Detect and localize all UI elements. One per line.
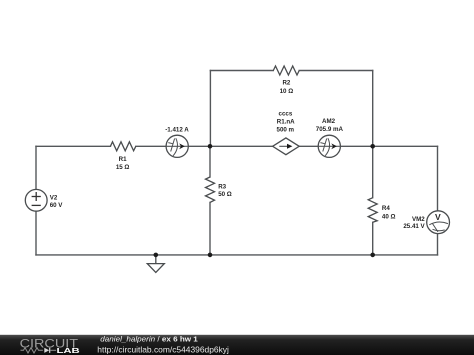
wire main horizontal right segment [136,145,438,147]
svg-text:R4: R4 [382,205,390,212]
resistor R3 [206,177,215,202]
CircuitLab logo resistor zigzag [21,348,43,353]
footer bar [0,335,474,355]
label cccs [277,110,296,133]
svg-text:50 Ω: 50 Ω [218,191,232,198]
svg-text:25.41 V: 25.41 V [403,223,425,230]
svg-text:40 Ω: 40 Ω [382,214,396,221]
wire R4 bottom lead [372,222,374,255]
label VM2 [403,216,425,230]
svg-text:cccs: cccs [279,110,293,117]
svg-text:V2: V2 [50,194,58,201]
svg-text:VM2: VM2 [412,216,425,223]
CircuitLab logo diode [44,348,56,353]
wire top horizontal right segment [299,70,373,72]
svg-text:15 Ω: 15 Ω [116,164,130,171]
svg-text:705.9 mA: 705.9 mA [316,126,344,133]
footer url [97,344,229,354]
wire bottom horizontal [36,254,438,256]
svg-text:500 m: 500 m [277,127,295,134]
svg-text:R2: R2 [282,80,290,87]
wire right vertical [437,146,439,255]
ground [147,255,164,273]
node ground junction [154,253,159,258]
wire top loop right vertical [372,71,374,147]
label R1 [116,156,130,171]
svg-text:R1: R1 [119,156,127,163]
svg-text:R3: R3 [218,183,226,190]
wire R3 vertical bottom lead [209,202,211,255]
svg-text:R1.nA: R1.nA [277,118,295,125]
resistor R4 [368,198,377,223]
label R4 [382,205,396,221]
voltage source V2 [25,189,47,211]
resistor R2 [273,66,299,75]
resistor R1 [110,142,135,151]
wire top horizontal left segment [210,70,273,72]
svg-text:http://circuitlab.com/c544396d: http://circuitlab.com/c544396dp6kyj [97,344,229,354]
node R4 bottom junction [370,253,375,258]
wire main horizontal left segment [36,145,110,147]
wire R3 vertical top lead [209,146,211,177]
voltmeter VM2 [427,211,450,234]
cccs source [273,138,300,155]
ammeter AM2 [318,135,340,157]
label AM1 value [165,127,189,134]
wire left vertical [35,146,37,255]
label V2 [50,194,64,209]
wire top loop left vertical [209,71,211,147]
wire R4 top lead [372,146,374,197]
svg-text:LAB: LAB [57,346,81,355]
svg-text:10 Ω: 10 Ω [280,88,294,95]
label R3 [218,183,232,198]
svg-text:60 V: 60 V [50,202,64,209]
node R3 bottom junction [208,253,213,258]
svg-text:V: V [435,212,441,222]
svg-text:daniel_halperin / ex 6 hw 1: daniel_halperin / ex 6 hw 1 [100,335,198,344]
node main-R4 junction [370,144,375,149]
label R2 [280,80,294,95]
ammeter AM1 [166,135,188,157]
svg-text:AM2: AM2 [322,118,336,125]
node main-R3 junction [208,144,213,149]
svg-text:-1.412 A: -1.412 A [165,127,189,134]
footer title [100,335,198,344]
label AM2 [316,118,344,133]
